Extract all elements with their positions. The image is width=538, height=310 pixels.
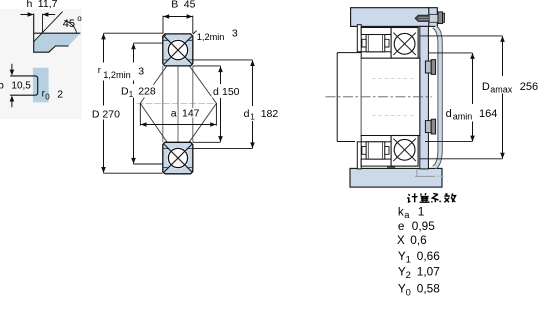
svg-text:2: 2: [406, 269, 411, 280]
detail 2: snap-ring groove cross-section (blue block): [33, 68, 49, 103]
svg-text:11,7: 11,7: [38, 0, 58, 10]
cover bolt nut (bottom): [425, 119, 435, 134]
cover wall inner edge: [433, 28, 438, 167]
dimension d1: line with arrows: [250, 60, 255, 148]
abutment extension left: bottom face line: [337, 141, 355, 143]
svg-text:1,2min: 1,2min: [197, 32, 225, 42]
bore lines between rings (gray): [163, 66, 193, 142]
svg-text:164: 164: [479, 108, 497, 120]
svg-text:amin: amin: [453, 111, 473, 121]
dimension D_amax: extension leaders: [420, 36, 503, 159]
roller bearing top: inner ring: [361, 52, 391, 58]
svg-text:X: X: [397, 233, 405, 247]
bottom block shoulder lines: [163, 149, 193, 168]
detail 1: 45 deg chamfer line: [34, 12, 63, 42]
top ball raceway pocket: [167, 39, 189, 61]
svg-text:1,2min: 1,2min: [103, 70, 131, 80]
svg-text:h: h: [27, 0, 33, 10]
svg-text:1: 1: [406, 254, 411, 265]
svg-text:256: 256: [520, 81, 538, 93]
end cover (flange): [429, 8, 438, 27]
svg-text:1,07: 1,07: [417, 264, 440, 278]
dimension D_amax: line with arrows: [500, 36, 505, 159]
bearing centre line (gray): [177, 66, 179, 142]
housing step rect at QJ seat (top): [388, 26, 395, 32]
roller bearing bottom: cage bars: [362, 147, 389, 155]
svg-text:amax: amax: [490, 84, 513, 94]
cover corner hidden step lines (bottom): [415, 169, 435, 176]
svg-text:0,66: 0,66: [417, 249, 440, 263]
detail 1: snap-ring land cross-section (blue wedge): [34, 14, 81, 53]
bottom ball contact cross: [164, 144, 192, 171]
leader to 1,2min chamfer (top right): [193, 31, 197, 34]
svg-text:150: 150: [222, 86, 240, 98]
bottom ball: [168, 148, 187, 167]
label r 1,2min 3 (left): [97, 65, 147, 80]
contact-angle diamond lines (gray): [140, 50, 216, 158]
svg-text:o: o: [77, 14, 82, 23]
cover wall outer edge: [437, 27, 442, 169]
QJ bearing bottom: block: [391, 136, 418, 167]
dimension d: leaders: [193, 66, 221, 142]
dimension B: extension lines: [163, 16, 193, 34]
outer ring locating-groove mark: [163, 34, 167, 38]
svg-text:D: D: [121, 85, 129, 97]
dimension D1: leaders: [134, 43, 163, 164]
svg-text:270: 270: [102, 109, 120, 121]
cover curved wall band: [435, 27, 440, 167]
roller bearing top: cage bars: [362, 39, 389, 47]
detail 1: dimension h extension line right: [42, 14, 44, 33]
dimension d1: leaders: [193, 60, 253, 149]
svg-text:e: e: [398, 219, 405, 233]
housing top band: [351, 8, 430, 27]
housing bottom band: [350, 168, 442, 187]
spacer ring top: [357, 25, 361, 52]
heading 计算系数 drawn as strokes: [407, 193, 455, 202]
svg-text:10,5: 10,5: [11, 80, 31, 91]
svg-text:228: 228: [138, 85, 156, 97]
label d1 182: [243, 107, 279, 122]
cover bolt nut (top): [425, 60, 435, 75]
svg-text:45: 45: [63, 18, 75, 30]
roller bearing bottom: outer ring: [361, 159, 391, 166]
cover spigot plate: [420, 26, 429, 169]
dimension a: extension lines from diamond vertices: [140, 103, 216, 125]
svg-text:2: 2: [57, 88, 63, 100]
svg-text:147: 147: [182, 107, 200, 119]
dimension D: leaders: [104, 33, 164, 173]
svg-text:a: a: [404, 209, 410, 220]
dimension a: line with arrows: [140, 122, 216, 127]
svg-text:45: 45: [184, 0, 196, 10]
pitch mid line (light): [137, 102, 218, 104]
abutment extension left: top face line: [337, 52, 361, 54]
svg-text:1: 1: [418, 204, 425, 218]
svg-text:D: D: [482, 81, 490, 93]
svg-text:B: B: [171, 0, 178, 10]
top ball contact cross: [164, 36, 192, 64]
roller bearing bottom: inner ring: [361, 136, 391, 142]
svg-text:3: 3: [138, 66, 144, 78]
top block shoulder lines: [163, 40, 193, 60]
QJ bearing top: ball: [394, 33, 415, 54]
dimension d: line with arrows: [218, 66, 223, 142]
bottom ring section block: [163, 142, 193, 174]
QJ bearing bottom: ball: [394, 139, 415, 160]
svg-text:3: 3: [232, 28, 238, 40]
svg-text:0,6: 0,6: [410, 233, 427, 247]
label d_amin 164: [445, 106, 498, 122]
(corner groove mark added after block): [163, 34, 193, 66]
svg-text:k: k: [398, 204, 404, 218]
shaft: [361, 58, 420, 135]
svg-text:0: 0: [45, 92, 50, 101]
svg-text:d: d: [446, 108, 452, 120]
faint axis dash near cover bottom: [437, 175, 445, 177]
svg-text:1: 1: [129, 90, 134, 99]
svg-text:b: b: [0, 80, 4, 91]
label D 270: [91, 107, 123, 121]
shaft centre axis: [326, 96, 432, 98]
svg-text:182: 182: [261, 108, 279, 120]
dimension d_amin: line with arrows: [470, 53, 475, 142]
detail 2: dimension b arrows: [10, 64, 15, 107]
QJ bearing top: block: [391, 28, 418, 59]
roller bearing top: outer ring: [361, 28, 391, 35]
svg-text:d: d: [213, 86, 219, 98]
bottom ball raceway pocket: [167, 147, 189, 169]
svg-text:D: D: [92, 109, 100, 121]
dimension B: line and arrows: [163, 14, 193, 19]
shaft hidden bore lines: [372, 78, 414, 115]
QJ bearing top: contact cross: [393, 33, 415, 55]
label D1 228: [120, 85, 159, 99]
top ball: [168, 40, 187, 59]
attachment bolt (top, horizontal): [415, 12, 445, 24]
roller bearing top: roller: [366, 35, 385, 52]
dimension d_amin: extension leaders: [425, 53, 473, 142]
svg-text:0: 0: [406, 286, 411, 297]
dimension D: line with arrows: [101, 33, 106, 173]
label d 150: [212, 85, 243, 98]
shaft left face (gray): [360, 58, 362, 135]
spacer ring bottom: [357, 142, 361, 169]
dimension D1: line with arrows: [131, 43, 136, 164]
svg-text:0,95: 0,95: [412, 219, 435, 233]
housing step rect at QJ seat (bottom): [388, 161, 395, 167]
roller bearing bottom: roller: [366, 142, 385, 159]
svg-text:0,58: 0,58: [417, 282, 440, 296]
QJ bearing bottom: contact cross: [393, 139, 415, 161]
detail 1: dimension h arrows: [20, 12, 55, 17]
svg-text:d: d: [244, 108, 250, 120]
label a 147: [170, 107, 201, 119]
label D_amax 256: [481, 79, 538, 95]
detail 2: groove profile: [10, 76, 38, 95]
abutment extension left: vertical: [336, 53, 338, 142]
light panel behind small details: [0, 9, 82, 119]
svg-text:r: r: [98, 65, 101, 76]
detail 1: angle arc: [64, 21, 76, 33]
svg-text:1: 1: [250, 113, 255, 122]
svg-text:a: a: [171, 107, 177, 119]
